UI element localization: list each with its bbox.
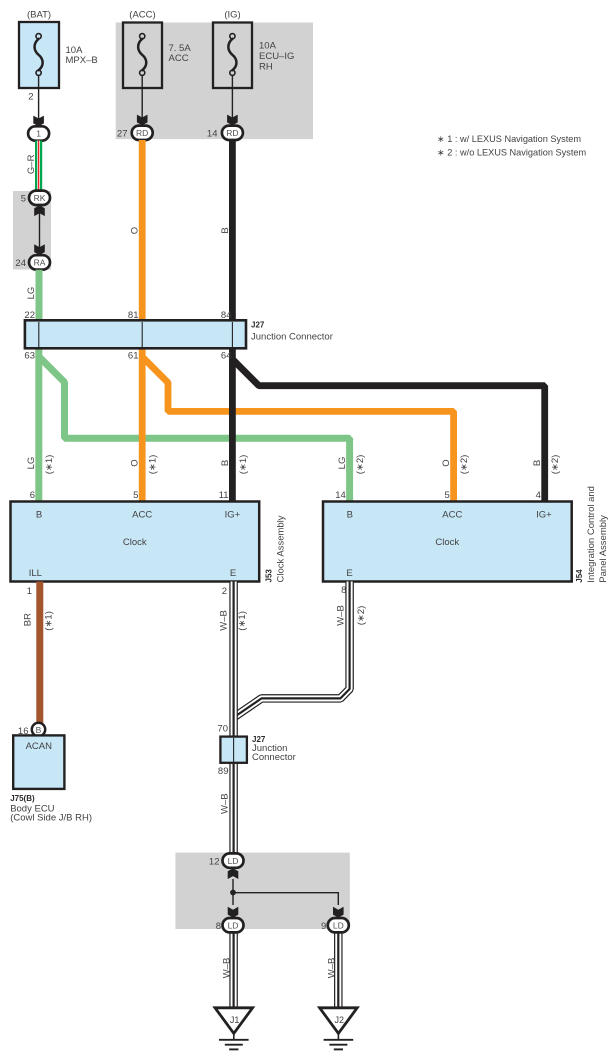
svg-text:1: 1 (36, 129, 41, 139)
svg-text:Connector: Connector (252, 752, 296, 763)
svg-text:(BAT): (BAT) (27, 10, 51, 21)
svg-text:J54: J54 (575, 569, 584, 583)
arrow into connector RD 27 (137, 115, 148, 126)
svg-text:J53: J53 (265, 569, 274, 583)
svg-text:LG: LG (26, 287, 37, 300)
wire fuse BAT to connector 1 (38, 75, 40, 121)
svg-text:81: 81 (128, 310, 139, 321)
svg-text:LG: LG (26, 457, 37, 470)
svg-text:LD: LD (228, 856, 239, 866)
svg-text:∗ 1 : w/ LEXUS Navigation Syst: ∗ 1 : w/ LEXUS Navigation System (437, 134, 581, 144)
svg-text:Clock: Clock (123, 537, 147, 548)
svg-text:W–B: W–B (220, 793, 231, 814)
J27 small divider (233, 738, 235, 762)
svg-text:(∗1): (∗1) (148, 455, 159, 475)
svg-text:(Cowl Side J/B RH): (Cowl Side J/B RH) (10, 813, 92, 824)
wire W-B to ground J2 (334, 933, 343, 1009)
arrow down into LD 9 (333, 907, 344, 918)
wire BR (36, 582, 43, 724)
svg-text:E: E (346, 568, 352, 579)
svg-text:ACC: ACC (132, 510, 152, 521)
svg-text:B: B (347, 510, 353, 521)
svg-text:2: 2 (28, 92, 33, 103)
svg-text:LD: LD (333, 920, 344, 930)
svg-text:MPX–B: MPX–B (66, 55, 98, 66)
J27 bar divider 1 (38, 322, 40, 347)
fuse 10A ECU-IG box (213, 23, 252, 89)
svg-text:(ACC): (ACC) (129, 10, 155, 21)
svg-text:(∗1): (∗1) (44, 455, 55, 475)
svg-text:Clock Assembly: Clock Assembly (276, 515, 287, 582)
svg-text:5: 5 (133, 490, 138, 501)
svg-text:Clock: Clock (435, 537, 459, 548)
connector B circle (32, 723, 45, 736)
svg-text:4: 4 (536, 490, 541, 501)
svg-text:W–B: W–B (219, 610, 230, 631)
svg-text:ACC: ACC (169, 53, 189, 64)
svg-text:9: 9 (321, 921, 326, 932)
connector LD pin 9 (328, 918, 349, 932)
svg-text:(∗2): (∗2) (356, 606, 367, 626)
wire G-R (35, 141, 42, 191)
svg-text:63: 63 (24, 351, 35, 362)
svg-text:J27: J27 (251, 321, 265, 330)
svg-text:Integration Control and: Integration Control and (586, 486, 597, 583)
svg-text:(∗2): (∗2) (550, 455, 561, 475)
ground junction panel (bottom) (175, 853, 349, 929)
relay block panel (top) (116, 23, 313, 140)
junction connector J27 small box (220, 737, 247, 763)
wire W-B *1 from J53 E (229, 582, 238, 854)
wire O branch to J54 pin 5 (142, 357, 453, 502)
svg-text:Panel Assembly: Panel Assembly (598, 515, 609, 583)
svg-text:B: B (36, 510, 42, 521)
svg-text:89: 89 (218, 766, 229, 777)
svg-text:B: B (532, 460, 543, 466)
svg-text:O: O (130, 459, 141, 466)
splice wire LD12 to LD8 (232, 879, 234, 905)
svg-text:J75(B): J75(B) (10, 794, 35, 803)
J27 bar divider 3 (231, 322, 233, 347)
connector 1 (28, 126, 49, 140)
arrow down into RA (34, 244, 45, 255)
connector LD pin 12 (223, 853, 244, 867)
wire LG from RA to J27 (36, 270, 43, 322)
svg-text:(IG): (IG) (224, 10, 240, 21)
fuse 10A ECU-IG symbol (230, 34, 235, 39)
wire fuse ACC to connector RD (141, 75, 143, 120)
wire B from fuse IG to J27 (229, 140, 236, 322)
svg-text:84: 84 (221, 310, 232, 321)
connector LD pin 8 (223, 918, 244, 932)
connector RA pin 24 (29, 255, 50, 269)
fuse 10A MPX-B box (19, 22, 59, 88)
svg-text:22: 22 (24, 310, 35, 321)
connector RD pin 27 (132, 126, 153, 140)
svg-text:64: 64 (221, 351, 232, 362)
svg-text:(∗2): (∗2) (459, 455, 470, 475)
svg-text:E: E (230, 568, 236, 579)
svg-text:B: B (220, 227, 231, 233)
ground J2 (320, 1008, 358, 1034)
svg-text:G–R: G–R (26, 154, 37, 174)
svg-text:6: 6 (30, 490, 35, 501)
wire W-B *2 from J54 E (234, 582, 350, 718)
svg-text:ACC: ACC (442, 510, 462, 521)
svg-text:5: 5 (445, 490, 450, 501)
svg-text:IG+: IG+ (225, 510, 241, 521)
svg-text:12: 12 (209, 856, 220, 867)
wire LG branch to J54 pin 14 (39, 357, 350, 503)
svg-text:RK: RK (34, 193, 46, 203)
junction connector J27 bar (25, 320, 246, 348)
svg-text:RD: RD (136, 128, 148, 138)
clock assembly J53 box (11, 502, 260, 582)
wire B branch to J54 pin 4 (232, 359, 544, 502)
svg-text:5: 5 (21, 194, 26, 205)
svg-text:W–B: W–B (222, 958, 233, 979)
svg-text:IG+: IG+ (536, 510, 552, 521)
svg-text:W–B: W–B (336, 605, 347, 626)
svg-text:B: B (36, 725, 42, 735)
svg-text:B: B (220, 460, 231, 466)
arrow into connector 1 (33, 116, 44, 127)
arrow up into RK (34, 205, 45, 216)
connector RD pin 14 (222, 126, 243, 140)
wire O *1 to clock pin 5 (139, 348, 146, 503)
fuse 7.5A ACC box (123, 23, 162, 89)
svg-text:RH: RH (259, 61, 273, 72)
body ECU box ACAN (13, 735, 64, 789)
svg-text:(∗2): (∗2) (355, 455, 366, 475)
wire fuse IG to connector RD (231, 75, 233, 120)
svg-text:1: 1 (27, 586, 32, 597)
svg-text:27: 27 (117, 129, 128, 140)
svg-text:8: 8 (341, 585, 346, 596)
svg-text:J2: J2 (334, 1015, 344, 1025)
svg-text:70: 70 (217, 723, 228, 734)
svg-text:J1: J1 (230, 1015, 240, 1025)
svg-text:10A: 10A (259, 41, 277, 52)
svg-text:O: O (441, 459, 452, 466)
svg-text:RA: RA (34, 258, 46, 268)
svg-text:61: 61 (128, 351, 139, 362)
arrow up into LD 12 (228, 868, 239, 879)
svg-text:ACAN: ACAN (26, 741, 53, 752)
ground J1 (215, 1008, 253, 1034)
connector RK pin 5 (29, 191, 50, 205)
fuse 10A MPX-B symbol (36, 34, 41, 39)
svg-text:14: 14 (207, 129, 218, 140)
pass-through wire RK to RA (39, 210, 41, 248)
arrow into connector RD 14 (227, 115, 238, 126)
svg-text:(∗1): (∗1) (237, 611, 248, 631)
splice wire to LD9 (233, 893, 338, 905)
svg-text:Junction Connector: Junction Connector (251, 332, 333, 343)
svg-text:(∗1): (∗1) (43, 611, 54, 631)
svg-text:BR: BR (22, 613, 33, 626)
wire W-B to ground J1 (229, 933, 238, 1009)
svg-text:11: 11 (219, 490, 229, 501)
integration control clock J54 box (323, 502, 572, 582)
J27 bar divider 2 (141, 322, 143, 347)
svg-text:2: 2 (222, 586, 227, 597)
svg-text:W–B: W–B (326, 958, 337, 979)
svg-text:RD: RD (226, 128, 238, 138)
svg-text:ILL: ILL (29, 568, 42, 579)
wire B *1 to clock pin 11 (229, 348, 236, 503)
wire O from fuse ACC to J27 (139, 140, 146, 322)
connector panel (RK-RA) (13, 191, 51, 270)
svg-text:24: 24 (15, 258, 26, 269)
svg-text:(∗1): (∗1) (238, 455, 249, 475)
svg-text:LD: LD (228, 920, 239, 930)
svg-text:14: 14 (335, 490, 346, 501)
fuse 7.5A ACC symbol (140, 34, 145, 39)
svg-text:8: 8 (216, 921, 221, 932)
svg-text:O: O (130, 227, 141, 234)
junction dot (230, 890, 236, 896)
svg-text:∗ 2 : w/o LEXUS Navigation Sys: ∗ 2 : w/o LEXUS Navigation System (437, 148, 586, 158)
wire LG *1 to clock pin 6 (35, 348, 42, 503)
arrow down into LD 8 (228, 907, 239, 918)
svg-text:LG: LG (337, 457, 348, 470)
